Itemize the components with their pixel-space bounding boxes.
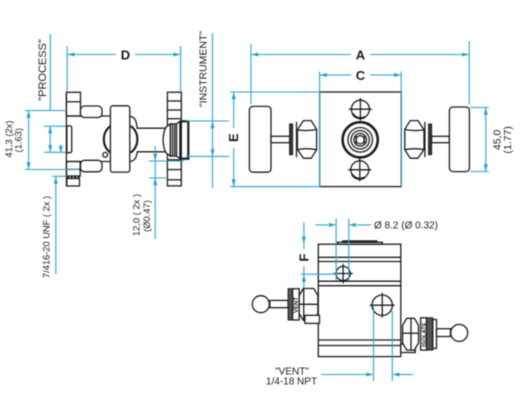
dimension F [303, 222, 305, 249]
knurled ring [427, 318, 433, 350]
ferrule band [170, 124, 176, 156]
ISOLATE valve [401, 344, 415, 353]
knurled ring [288, 289, 293, 320]
port plate bump [67, 126, 72, 153]
svg-text:F: F [296, 254, 311, 262]
top lug [81, 106, 103, 118]
right hex [405, 121, 424, 159]
left hex [297, 121, 316, 159]
svg-text:"INSTRUMENT": "INSTRUMENT" [197, 31, 209, 108]
svg-text:E: E [226, 133, 241, 142]
flare [177, 121, 180, 158]
left washer (dark) [290, 124, 293, 155]
VENT label band [293, 289, 300, 320]
svg-text:(Ø0.47): (Ø0.47) [141, 200, 152, 232]
thread hatch band lower-left [67, 176, 80, 178]
ISOLATE label band [421, 318, 427, 350]
top port circle [349, 108, 372, 110]
stray down arrow [60, 145, 62, 149]
center rings [343, 122, 378, 157]
bonnet circle behind (side arcs) [104, 126, 111, 153]
left stem [271, 136, 290, 142]
left handle [249, 106, 271, 172]
right handle [449, 107, 469, 172]
flange column right (instrument side) [167, 92, 181, 186]
svg-text:(1.77): (1.77) [502, 126, 514, 153]
dimension A [250, 44, 252, 104]
svg-text:Ø 8.2 (Ø 0.32): Ø 8.2 (Ø 0.32) [374, 221, 438, 232]
dimension C [319, 72, 321, 187]
right stem [432, 136, 450, 142]
VENT valve [252, 296, 269, 313]
right washer (dark) [429, 124, 432, 155]
dimension 45,0 [470, 107, 489, 109]
small o detail [103, 152, 108, 157]
svg-text:1/4-18 NPT: 1/4-18 NPT [266, 377, 317, 388]
central block [110, 106, 129, 172]
dimension Ø 8.2 [335, 219, 337, 281]
flange step line [167, 159, 181, 161]
dome nose [163, 124, 170, 156]
dimension D [66, 46, 68, 92]
body [320, 92, 402, 187]
svg-text:"PROCESS": "PROCESS" [37, 39, 49, 101]
right port circle (thick) [370, 304, 395, 306]
tab below [305, 315, 320, 323]
svg-text:7/416-20 UNF ( 2x ): 7/416-20 UNF ( 2x ) [42, 196, 52, 278]
stem [437, 329, 451, 337]
dimension E [230, 91, 320, 93]
hex [299, 289, 318, 321]
light ring [433, 320, 437, 349]
svg-text:D: D [121, 48, 130, 63]
body [318, 244, 401, 356]
mid band body [66, 115, 110, 117]
svg-text:(1.63): (1.63) [12, 128, 23, 153]
lower stub [67, 179, 80, 187]
svg-text:A: A [356, 48, 366, 63]
top protrusion cap [338, 242, 383, 244]
bottom lug [81, 160, 103, 172]
neck top/bottom [130, 116, 166, 128]
end cap [181, 121, 188, 158]
svg-text:C: C [356, 68, 366, 83]
left port circle [333, 273, 352, 275]
right side dimension (instrument port) [186, 120, 229, 122]
inner small dimension [44, 125, 66, 127]
bottom port circle [348, 169, 371, 171]
left bonnet plate [296, 122, 298, 157]
flange column left (process side) [66, 92, 80, 116]
right bonnet plate [424, 122, 426, 157]
